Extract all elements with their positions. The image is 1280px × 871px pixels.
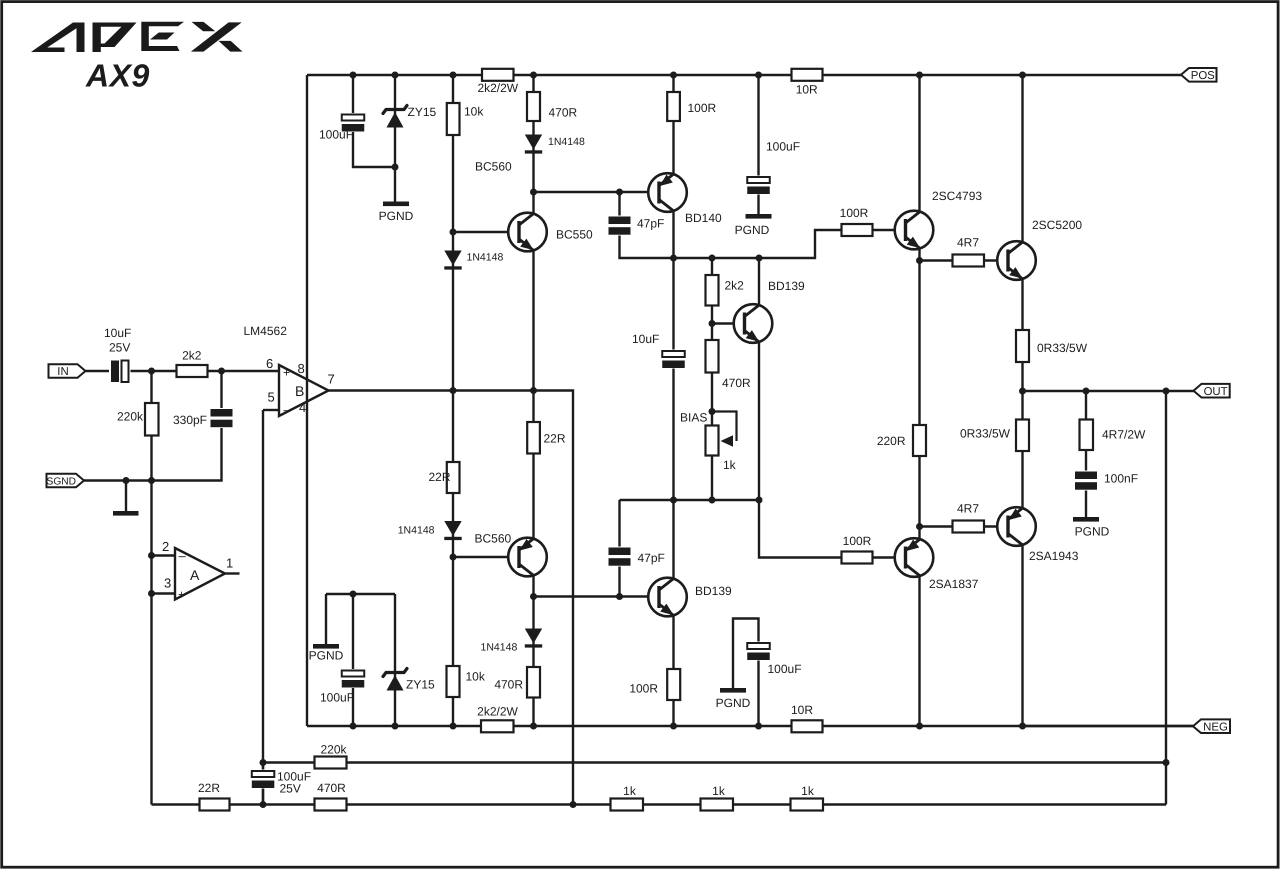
- svg-text:LM4562: LM4562: [244, 324, 288, 338]
- wire BD139 upper base wire: [712, 322, 744, 324]
- node BC560 base node: [450, 554, 457, 561]
- svg-text:4R7/2W: 4R7/2W: [1102, 428, 1146, 442]
- wire 100R to 2SA1837 base: [873, 556, 906, 558]
- resistor 22R (feedback): [198, 781, 230, 811]
- resistor 0R33/5W (upper): [1016, 330, 1088, 362]
- svg-text:1N4148: 1N4148: [398, 525, 435, 537]
- power ground PGND (zobel): [1073, 517, 1110, 539]
- wire signal ground stem: [125, 481, 127, 512]
- svg-text:22R: 22R: [428, 470, 450, 484]
- svg-text:100uF: 100uF: [766, 140, 800, 154]
- svg-text:100R: 100R: [688, 101, 717, 115]
- resistor 1k (chain 1): [611, 784, 644, 811]
- wire bottom 100uF column x=353: [352, 594, 354, 672]
- wire output column x=1022.5: [1021, 75, 1023, 726]
- capacitor 100nF (zobel) (film): [1075, 471, 1138, 491]
- transistor BC560 (VAS lower) (PNP): [508, 538, 547, 577]
- svg-text:330pF: 330pF: [173, 413, 207, 427]
- svg-text:220k: 220k: [320, 743, 347, 757]
- svg-text:2: 2: [162, 539, 169, 554]
- resistor 22R (x453): [428, 462, 459, 493]
- svg-text:22R: 22R: [198, 781, 220, 795]
- resistor 10R (bottom rail): [791, 703, 823, 732]
- wire POS rail (top, y=75): [307, 74, 1181, 76]
- wire bottom zener column x=395: [394, 594, 396, 726]
- wire bottom 100uF lower stem: [352, 687, 354, 727]
- svg-text:2SA1943: 2SA1943: [1029, 549, 1079, 563]
- svg-text:10R: 10R: [796, 82, 818, 96]
- wire 100uF top to zener link: [353, 129, 395, 167]
- svg-text:47pF: 47pF: [638, 551, 665, 565]
- node NEG rail / 100R: [670, 723, 677, 730]
- node POS rail / 100uF: [350, 72, 357, 79]
- wire op-amp A pin2 stub: [152, 554, 176, 556]
- power ground PGND (top mid): [735, 214, 772, 237]
- wire op-amp B inverting feedback column x=263: [263, 409, 279, 411]
- wire NEG wire to connector: [1023, 725, 1194, 727]
- op-amp U1B LM4562: [266, 356, 335, 417]
- node feedback 762 left node: [260, 759, 267, 766]
- svg-text:2SA1837: 2SA1837: [929, 577, 979, 591]
- svg-text:ZY15: ZY15: [408, 105, 437, 119]
- node VAS output node C: [756, 255, 763, 262]
- resistor 220k (feedback): [315, 743, 348, 769]
- wire 100uF top column x=353: [352, 75, 354, 116]
- svg-text:BD139: BD139: [768, 279, 805, 293]
- node OUT rail / feedback: [1163, 388, 1170, 395]
- wire 100uF/PGND column top x=758.5: [757, 75, 759, 179]
- node bias rail / pot: [709, 497, 716, 504]
- wire bottom 100uF hook: [733, 619, 759, 689]
- wire BD139 upper collector/emitter column x=759: [759, 258, 842, 558]
- node 100uF-zener junction: [392, 164, 399, 171]
- svg-text:25V: 25V: [109, 341, 130, 355]
- svg-text:BC550: BC550: [556, 228, 593, 242]
- node 2k2/330pF node: [218, 368, 225, 375]
- node NEG rail / 470R: [530, 723, 537, 730]
- transistor BC550 (NPN): [508, 213, 547, 252]
- svg-text:3: 3: [164, 576, 171, 591]
- wire zener column x=395 top: [394, 75, 396, 203]
- svg-text:100R: 100R: [840, 206, 869, 220]
- wire SGND line y=480: [84, 371, 222, 481]
- node POS rail / 100uF PGND: [755, 72, 762, 79]
- svg-text:100uF: 100uF: [768, 662, 802, 676]
- APEX logo: [31, 22, 243, 52]
- wire left supply column x=307: [306, 75, 308, 726]
- svg-text:100uF: 100uF: [320, 691, 354, 705]
- svg-text:100R: 100R: [629, 682, 658, 696]
- node POS rail / 470R: [530, 72, 537, 79]
- wire POS wire to connector: [1180, 74, 1182, 76]
- node decoupling link node: [350, 591, 357, 598]
- transistor BD139 (lower) (NPN): [648, 578, 687, 617]
- svg-text:10k: 10k: [464, 105, 484, 119]
- wire BC560 base wire: [453, 556, 519, 558]
- svg-text:A: A: [190, 567, 200, 583]
- svg-text:1N4148: 1N4148: [467, 252, 504, 264]
- wire BC550 collector to BD140 base line y=192: [534, 191, 660, 193]
- wire 2SC4793 emitter to 4R7: [920, 259, 953, 261]
- node op-amp A pin3 node: [148, 590, 155, 597]
- node OUT rail / 0R33: [1019, 388, 1026, 395]
- capacitor 100uF (top PGND) (electrolytic): [747, 140, 800, 195]
- svg-text:PGND: PGND: [716, 696, 751, 710]
- wire OUT rail y=391: [1023, 390, 1194, 392]
- wire feedback line y=762 (220k to OUT column): [263, 761, 1166, 763]
- resistor 22R (x533): [527, 422, 566, 454]
- node POS rail / 100R: [670, 72, 677, 79]
- node IN node: [148, 368, 155, 375]
- svg-text:AX9: AX9: [85, 58, 150, 94]
- svg-text:B: B: [295, 383, 304, 399]
- capacitor 100uF (bottom PGND) (electrolytic): [747, 642, 801, 677]
- svg-text:1k: 1k: [623, 784, 637, 798]
- wire 100R to 2SC4793 base: [873, 229, 906, 231]
- capacitor 100uF 25V (feedback, electrolytic): [252, 770, 311, 796]
- node SGND / ground bar node: [123, 477, 130, 484]
- connector OUT: [1194, 384, 1230, 398]
- resistor 4R7/2W (zobel): [1080, 420, 1147, 451]
- svg-text:4R7: 4R7: [957, 236, 979, 250]
- node NEG rail / 100uF: [350, 723, 357, 730]
- resistor 470R (lower): [494, 667, 540, 698]
- node BD139 base node: [709, 320, 716, 327]
- svg-text:2SC5200: 2SC5200: [1032, 218, 1082, 232]
- svg-text:BC560: BC560: [475, 160, 512, 174]
- svg-text:1k: 1k: [712, 784, 726, 798]
- svg-text:POS: POS: [1191, 70, 1215, 82]
- resistor 470R (bias): [706, 340, 752, 390]
- wire op-amp B output line y=390.5: [329, 391, 574, 805]
- svg-text:1: 1: [226, 556, 233, 571]
- wire op-amp B pin5 vertical x=263: [262, 410, 264, 805]
- wire VAS column x=673.5: [672, 75, 674, 726]
- wire zobel cap to PGND: [1085, 489, 1087, 518]
- power ground PGND (bottom left): [309, 644, 344, 663]
- node NEG rail / 2SA1943: [1019, 723, 1026, 730]
- svg-text:2k2: 2k2: [725, 279, 745, 293]
- op-amp U1A LM4562: [162, 539, 233, 602]
- wire OUT feedback vertical x=1166: [1165, 391, 1167, 805]
- svg-text:22R: 22R: [544, 432, 566, 446]
- node VAS output node A: [670, 255, 677, 262]
- resistor 100R (to 2SC4793): [840, 206, 873, 236]
- svg-text:BC560: BC560: [475, 532, 512, 546]
- svg-text:OUT: OUT: [1204, 386, 1228, 398]
- zener diode ZY15 (top): [383, 105, 437, 128]
- capacitor 10uF (VAS) (electrolytic): [632, 332, 685, 369]
- node NEG rail / 100uF: [755, 723, 762, 730]
- node POS rail / 2SC4793: [916, 72, 923, 79]
- svg-text:6: 6: [266, 356, 273, 371]
- wire BC560 emitter to BD139 base line y=596.5: [534, 595, 660, 597]
- svg-text:BD140: BD140: [685, 211, 722, 225]
- wire 470R/BC550/BC560 column x=533.5: [532, 75, 534, 726]
- potentiometer BIAS 1k: [680, 411, 737, 473]
- wire 47pF upper lower stem: [620, 230, 842, 258]
- svg-text:25V: 25V: [280, 782, 301, 796]
- node 2SC4793 emitter node: [916, 257, 923, 264]
- connector IN: [49, 364, 86, 378]
- wire BC550 base wire: [453, 231, 519, 233]
- resistor 2k2 (input): [177, 349, 208, 377]
- node feedback 804 / op-amp out: [570, 801, 577, 808]
- node POS rail / zener: [392, 72, 399, 79]
- wire 2SA1837 junction to 4R7: [920, 525, 953, 527]
- svg-text:1k: 1k: [723, 458, 737, 472]
- resistor 10k (lower): [447, 666, 486, 697]
- wire 4R7 to 2SC5200 base: [984, 259, 1008, 261]
- node bias rail / BD139: [756, 497, 763, 504]
- svg-text:470R: 470R: [722, 376, 751, 390]
- node POS rail / 2SC5200: [1019, 72, 1026, 79]
- svg-text:1k: 1k: [801, 784, 815, 798]
- resistor 100R (VAS bottom): [629, 669, 680, 700]
- capacitor 47pF (lower) (film): [609, 547, 665, 567]
- svg-text:2k2/2W: 2k2/2W: [477, 704, 518, 718]
- power ground PGND (bottom mid): [716, 688, 751, 710]
- svg-text:10k: 10k: [466, 670, 486, 684]
- resistor 470R (feedback): [315, 781, 347, 811]
- node feedback 804 / 100uF: [260, 801, 267, 808]
- diode 1N4148 (x453 upper): [444, 251, 503, 270]
- transistor 2SC5200 (NPN): [997, 241, 1036, 280]
- svg-text:–: –: [284, 402, 292, 417]
- power ground PGND (top left): [379, 202, 414, 224]
- node 2SA1837 emitter node: [916, 523, 923, 530]
- wire 47pF lower stem bottom: [618, 563, 620, 597]
- transistor 2SA1943 (PNP): [997, 507, 1036, 546]
- wire 2k2/470R/pot column x=712: [711, 258, 713, 500]
- svg-text:10R: 10R: [791, 703, 813, 717]
- wire driver column x=919.5: [918, 75, 920, 726]
- svg-text:PGND: PGND: [309, 649, 344, 663]
- wire 47pF lower column stem top: [618, 500, 620, 549]
- wire bottom PGND stem x=326: [325, 594, 327, 644]
- resistor 2k2/2W (top rail): [477, 69, 518, 95]
- node BC550 base node: [450, 229, 457, 236]
- resistor 2k2 (VAS): [706, 275, 745, 306]
- svg-text:SGND: SGND: [47, 477, 76, 488]
- svg-text:100uF: 100uF: [319, 128, 353, 142]
- diode 1N4148 (x533 lower): [481, 629, 543, 654]
- node SGND / 220k node: [148, 477, 155, 484]
- svg-text:220R: 220R: [877, 434, 906, 448]
- wire bias rail y=500: [620, 499, 760, 501]
- wire 100uF 25V stem: [262, 763, 264, 805]
- svg-text:2SC4793: 2SC4793: [932, 189, 982, 203]
- wire NEG rail (bottom, y=726): [307, 725, 1193, 727]
- node BC550 collector node: [530, 189, 537, 196]
- svg-text:0R33/5W: 0R33/5W: [1037, 341, 1088, 355]
- node NEG rail / 2SA1837: [916, 723, 923, 730]
- diode 1N4148 (x533 upper): [525, 135, 585, 154]
- transistor 2SA1837 (PNP): [895, 538, 934, 577]
- svg-text:220k: 220k: [117, 410, 144, 424]
- svg-text:2k2/2W: 2k2/2W: [477, 81, 518, 95]
- resistor 220k (input): [117, 403, 159, 436]
- connector NEG: [1193, 719, 1230, 733]
- node 47pF top node: [616, 189, 623, 196]
- svg-text:2k2: 2k2: [182, 349, 202, 363]
- node feedback 762 right node: [1163, 759, 1170, 766]
- svg-text:470R: 470R: [317, 781, 346, 795]
- resistor 0R33/5W (lower): [960, 420, 1029, 452]
- svg-text:1N4148: 1N4148: [548, 136, 585, 148]
- transistor BD140 (PNP): [648, 173, 687, 212]
- svg-text:470R: 470R: [494, 678, 523, 692]
- transistor 2SC4793 (NPN): [895, 211, 934, 250]
- node 47pF lower node: [616, 593, 623, 600]
- svg-text:ZY15: ZY15: [406, 678, 435, 692]
- zener diode ZY15 (bottom): [383, 669, 435, 692]
- resistor 100R (to 2SA1837): [842, 534, 873, 564]
- svg-text:7: 7: [328, 372, 335, 387]
- svg-text:10uF: 10uF: [104, 326, 131, 340]
- resistor 10R (top rail): [792, 69, 823, 97]
- connector POS: [1181, 68, 1217, 82]
- node bias wiper node: [709, 408, 716, 415]
- capacitor 100uF (bottom left) (electrolytic): [320, 669, 364, 705]
- svg-text:BD139: BD139: [695, 584, 732, 598]
- resistor 2k2/2W (bottom rail): [477, 704, 518, 732]
- wire 10k/22R/diode column x=453: [452, 75, 454, 726]
- svg-text:BIAS: BIAS: [680, 411, 707, 425]
- svg-text:1N4148: 1N4148: [481, 642, 518, 654]
- signal ground bar: [113, 511, 139, 516]
- wire feedback line y=804 (1k chain): [152, 803, 1167, 805]
- svg-text:+: +: [283, 366, 290, 380]
- wire bottom 100uF column x=758.5: [757, 645, 759, 727]
- node NEG rail / 10k: [450, 723, 457, 730]
- svg-text:100nF: 100nF: [1104, 472, 1138, 486]
- node op-amp output / x533.5: [530, 387, 537, 394]
- wire op-amp A output stub: [225, 572, 240, 574]
- node POS rail / 10k: [450, 72, 457, 79]
- wire 47pF upper column x=619.5: [618, 192, 620, 218]
- node bias rail / VAS: [670, 497, 677, 504]
- svg-text:47pF: 47pF: [637, 217, 664, 231]
- svg-text:100R: 100R: [843, 534, 872, 548]
- resistor 220R (driver): [877, 425, 926, 456]
- resistor 1k (chain 2): [701, 784, 734, 811]
- wire bottom decoupling link y=594: [326, 593, 395, 595]
- svg-text:5: 5: [268, 390, 275, 405]
- resistor 10k (upper): [447, 103, 485, 135]
- svg-text:470R: 470R: [549, 106, 578, 120]
- transistor BD139 (upper) (NPN): [734, 304, 773, 343]
- svg-text:+: +: [178, 588, 185, 602]
- wire 4R7 to 2SA1943 base: [984, 525, 1008, 527]
- resistor 4R7 (upper driver): [953, 236, 985, 267]
- node BC560 emitter node: [530, 593, 537, 600]
- svg-text:PGND: PGND: [1075, 525, 1110, 539]
- node VAS output node B: [709, 255, 716, 262]
- wire IN signal line y=371: [85, 370, 279, 372]
- diode 1N4148 (x453 lower): [398, 521, 462, 540]
- resistor 4R7 (lower driver): [953, 502, 985, 533]
- node op-amp A pin2 node: [148, 552, 155, 559]
- svg-text:8: 8: [298, 361, 305, 376]
- wire 100uF top PGND stem: [757, 193, 759, 214]
- svg-text:IN: IN: [57, 366, 68, 378]
- resistor 470R (upper): [527, 92, 578, 121]
- svg-text:10uF: 10uF: [632, 332, 659, 346]
- node NEG rail / zener: [392, 723, 399, 730]
- svg-text:0R33/5W: 0R33/5W: [960, 427, 1011, 441]
- capacitor 330pF (film): [173, 408, 233, 428]
- resistor 100R (VAS top): [667, 92, 716, 121]
- svg-text:4R7: 4R7: [957, 502, 979, 516]
- wire op-amp A input column x=151.5: [150, 371, 152, 805]
- svg-text:PGND: PGND: [379, 209, 414, 223]
- node op-amp output / x453: [450, 387, 457, 394]
- wire op-amp A pin3 stub: [152, 592, 176, 594]
- wire zobel column x=1086: [1085, 391, 1087, 421]
- svg-text:4: 4: [299, 400, 306, 415]
- svg-text:–: –: [179, 548, 187, 563]
- connector SGND: [47, 474, 85, 488]
- capacitor 100uF (top left) (electrolytic): [319, 113, 364, 142]
- resistor 1k (chain 3): [791, 784, 824, 811]
- svg-text:NEG: NEG: [1203, 721, 1228, 733]
- svg-text:PGND: PGND: [735, 223, 770, 237]
- wire zobel cap stem: [1085, 449, 1087, 473]
- capacitor 47pF (upper) (film): [609, 216, 665, 236]
- capacitor 10uF 25V (input, electrolytic horizontal): [104, 326, 131, 384]
- node OUT rail / zobel: [1083, 388, 1090, 395]
